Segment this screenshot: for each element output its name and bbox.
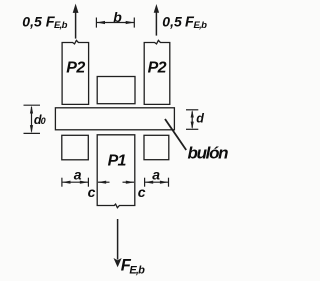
force arrow down bottom [114,219,122,267]
svg-text:E,b: E,b [54,20,68,31]
bolt bar (bulon) [55,108,174,130]
dimension d [186,110,198,130]
washer square lower-left [62,135,89,160]
dimension b [96,18,134,28]
svg-text:E,b: E,b [194,20,208,31]
dimension a right [145,178,169,187]
svg-text:a: a [152,167,160,183]
plate P1 upper flange rectangle [97,77,135,104]
svg-text:P1: P1 [108,153,127,170]
plate P1 outline with bottom break mark [97,135,135,208]
svg-text:0,5: 0,5 [22,14,42,30]
svg-text:bulón: bulón [188,144,229,163]
force arrow up left [73,4,79,39]
svg-text:a: a [74,167,82,183]
force arrow up right [154,4,159,36]
svg-text:0: 0 [41,116,46,126]
svg-text:E,b: E,b [129,265,145,277]
dimension c arrow left (inside P1) [98,181,110,183]
dimension c arrow right (inside P1) [123,181,135,183]
svg-text:b: b [113,9,122,25]
svg-text:0,5: 0,5 [162,14,182,30]
dimension a left [62,178,89,187]
svg-text:P2: P2 [148,60,167,77]
leader line to bolt [165,119,186,150]
svg-text:d: d [196,112,204,126]
plate P2 right outline with break mark [144,40,170,104]
svg-text:c: c [138,184,146,200]
plate P2 left outline with break mark [62,40,89,104]
svg-text:c: c [88,184,96,200]
washer square lower-right [144,135,169,159]
dimension d0 [24,105,41,133]
svg-text:P2: P2 [66,60,85,77]
